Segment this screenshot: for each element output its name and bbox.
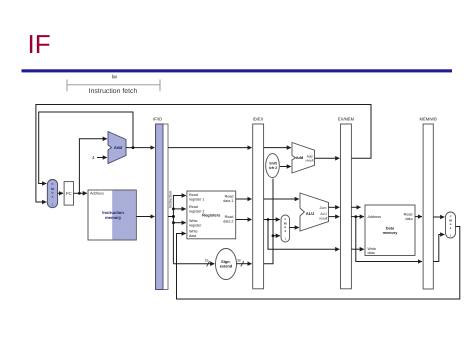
wire MEM/WB read data to WB mux input 0 — [433, 216, 444, 218]
wire instruction bus vertical — [173, 196, 185, 264]
wire branch Add result to EX/MEM — [315, 157, 340, 159]
svg-text:left 2: left 2 — [269, 166, 277, 170]
svg-text:ID/EX: ID/EX — [253, 117, 264, 122]
wire immediate branch to ALU mux input 1 — [273, 235, 280, 237]
wire sign extend to ID/EX — [237, 263, 252, 265]
node immediate junction — [272, 234, 275, 237]
svg-text:32: 32 — [237, 258, 241, 262]
svg-text:Read: Read — [404, 212, 413, 216]
wire PC to instruction memory Address — [74, 192, 87, 194]
svg-text:Instruction: Instruction — [168, 191, 172, 209]
pipeline register EX/MEM — [338, 117, 355, 289]
svg-text:data 2: data 2 — [223, 220, 233, 224]
svg-text:result: result — [319, 217, 327, 221]
svg-text:Data: Data — [386, 226, 395, 230]
wire shift left 2 to branch Add — [280, 166, 291, 168]
svg-text:Read: Read — [225, 195, 234, 199]
wire ID/EX to branch Add (PC+4) — [264, 147, 291, 149]
wire PC+4 feedback (Add output to PC mux input 0) — [39, 112, 133, 184]
wire 4 to Add — [97, 157, 107, 159]
svg-text:Write: Write — [189, 219, 198, 223]
wire ALU result EX/MEM to data memory Address — [351, 216, 363, 218]
svg-text:data: data — [405, 217, 413, 221]
pipeline register IF/ID (left half shaded) — [153, 117, 168, 290]
svg-text:memory: memory — [105, 215, 122, 220]
node Read data 2 junction — [267, 218, 270, 221]
svg-text:Address: Address — [368, 215, 382, 219]
svg-text:16: 16 — [205, 258, 209, 262]
node instruction junction WR — [172, 221, 175, 224]
wire to sign extend — [173, 263, 214, 265]
slash 16-bit — [207, 261, 210, 266]
svg-text:IF: IF — [28, 29, 51, 59]
wire Read data 2 branch down to write data — [268, 220, 339, 250]
bracket Instruction fetch span — [67, 80, 160, 92]
mux ALUSrc — [281, 215, 290, 242]
svg-text:Registers: Registers — [202, 212, 221, 217]
register PC — [64, 182, 73, 206]
svg-text:Read: Read — [189, 193, 198, 197]
svg-text:Write: Write — [189, 230, 198, 234]
wire ALU result bypass to MEM/WB — [356, 217, 422, 262]
adder Add (branch target) — [292, 143, 315, 174]
wire PC junction up to Add input — [79, 139, 106, 194]
mux MemtoReg — [446, 212, 456, 238]
node ALU result junction — [354, 215, 357, 218]
svg-text:Read: Read — [189, 205, 198, 209]
wire Read data 1 to ID/EX — [236, 198, 252, 200]
wire write-back mux output to Registers write data — [177, 227, 460, 300]
pipeline register MEM/WB — [420, 117, 438, 289]
wire ALU mux to ALU — [290, 227, 299, 229]
register file Registers — [187, 191, 236, 239]
svg-text:lw: lw — [112, 74, 118, 81]
svg-text:Address: Address — [90, 191, 104, 195]
svg-text:data 1: data 1 — [223, 199, 233, 203]
wire PC+4 IF/ID to ID/EX — [168, 147, 252, 149]
svg-text:PC: PC — [66, 191, 72, 196]
memory Instruction memory (right half shaded) — [88, 190, 136, 240]
svg-text:data: data — [368, 251, 376, 255]
wire ALU result to EX/MEM — [329, 216, 340, 218]
svg-text:Read: Read — [225, 215, 234, 219]
svg-text:extend: extend — [220, 264, 233, 269]
svg-text:Instruction fetch: Instruction fetch — [89, 88, 138, 95]
svg-text:IF/ID: IF/ID — [153, 117, 162, 122]
wire Zero to EX/MEM — [329, 206, 340, 208]
wire write data EX/MEM to data memory — [351, 248, 363, 250]
shifter Shift left 2 — [266, 154, 280, 178]
wire ID/EX Read data 2 to ALU mux input 0 — [264, 219, 280, 221]
alu ALU — [300, 193, 329, 231]
wire Zero stub after EX/MEM — [351, 206, 360, 208]
wire branch-target feedback (EX/MEM to PC mux input 1) — [36, 105, 371, 203]
horizontal rule (navy) — [22, 69, 453, 72]
wire mux to PC — [58, 192, 63, 194]
svg-text:Write: Write — [368, 247, 377, 251]
wire ID/EX Read data 1 to ALU — [264, 198, 299, 200]
svg-text:result: result — [305, 159, 313, 163]
node instruction junction main — [172, 215, 175, 218]
svg-text:data: data — [189, 234, 197, 238]
memory Data memory — [365, 205, 415, 256]
svg-text:ALU: ALU — [306, 211, 315, 216]
wire Add output to IF/ID — [126, 147, 154, 149]
wire to Write register — [173, 222, 185, 224]
wire to Read register 2 — [173, 208, 185, 210]
svg-text:MEM/WB: MEM/WB — [420, 117, 438, 122]
node Add output junction — [132, 146, 135, 149]
wire Read data to MEM/WB — [415, 216, 422, 218]
svg-text:Add: Add — [296, 155, 304, 160]
wire instruction memory to IF/ID — [136, 216, 154, 218]
node PC output junction — [78, 192, 81, 195]
node instruction junction RR2 — [172, 208, 175, 211]
svg-text:EX/MEM: EX/MEM — [338, 117, 355, 122]
mux PCSrc (shaded) — [47, 180, 57, 208]
svg-text:register 1: register 1 — [189, 197, 204, 201]
svg-text:Add: Add — [114, 145, 123, 150]
svg-text:memory: memory — [383, 231, 399, 235]
wire instruction bus out of IF/ID — [168, 216, 173, 218]
svg-text:x: x — [52, 194, 54, 198]
svg-text:Shift: Shift — [269, 161, 278, 165]
pipeline register ID/EX — [253, 117, 264, 289]
slash 32-bit — [241, 261, 244, 266]
svg-text:Zero: Zero — [320, 206, 327, 210]
wire MEM/WB ALU result to WB mux input 1 — [433, 235, 444, 262]
svg-text:register: register — [189, 224, 202, 228]
wire immediate ID/EX to shift left 2 — [264, 179, 273, 264]
svg-text:4: 4 — [92, 155, 95, 160]
sign extender Sign-extend — [216, 249, 237, 280]
adder Add (PC+4, shaded) — [108, 132, 126, 164]
wire Read data 2 to ID/EX — [236, 219, 252, 221]
